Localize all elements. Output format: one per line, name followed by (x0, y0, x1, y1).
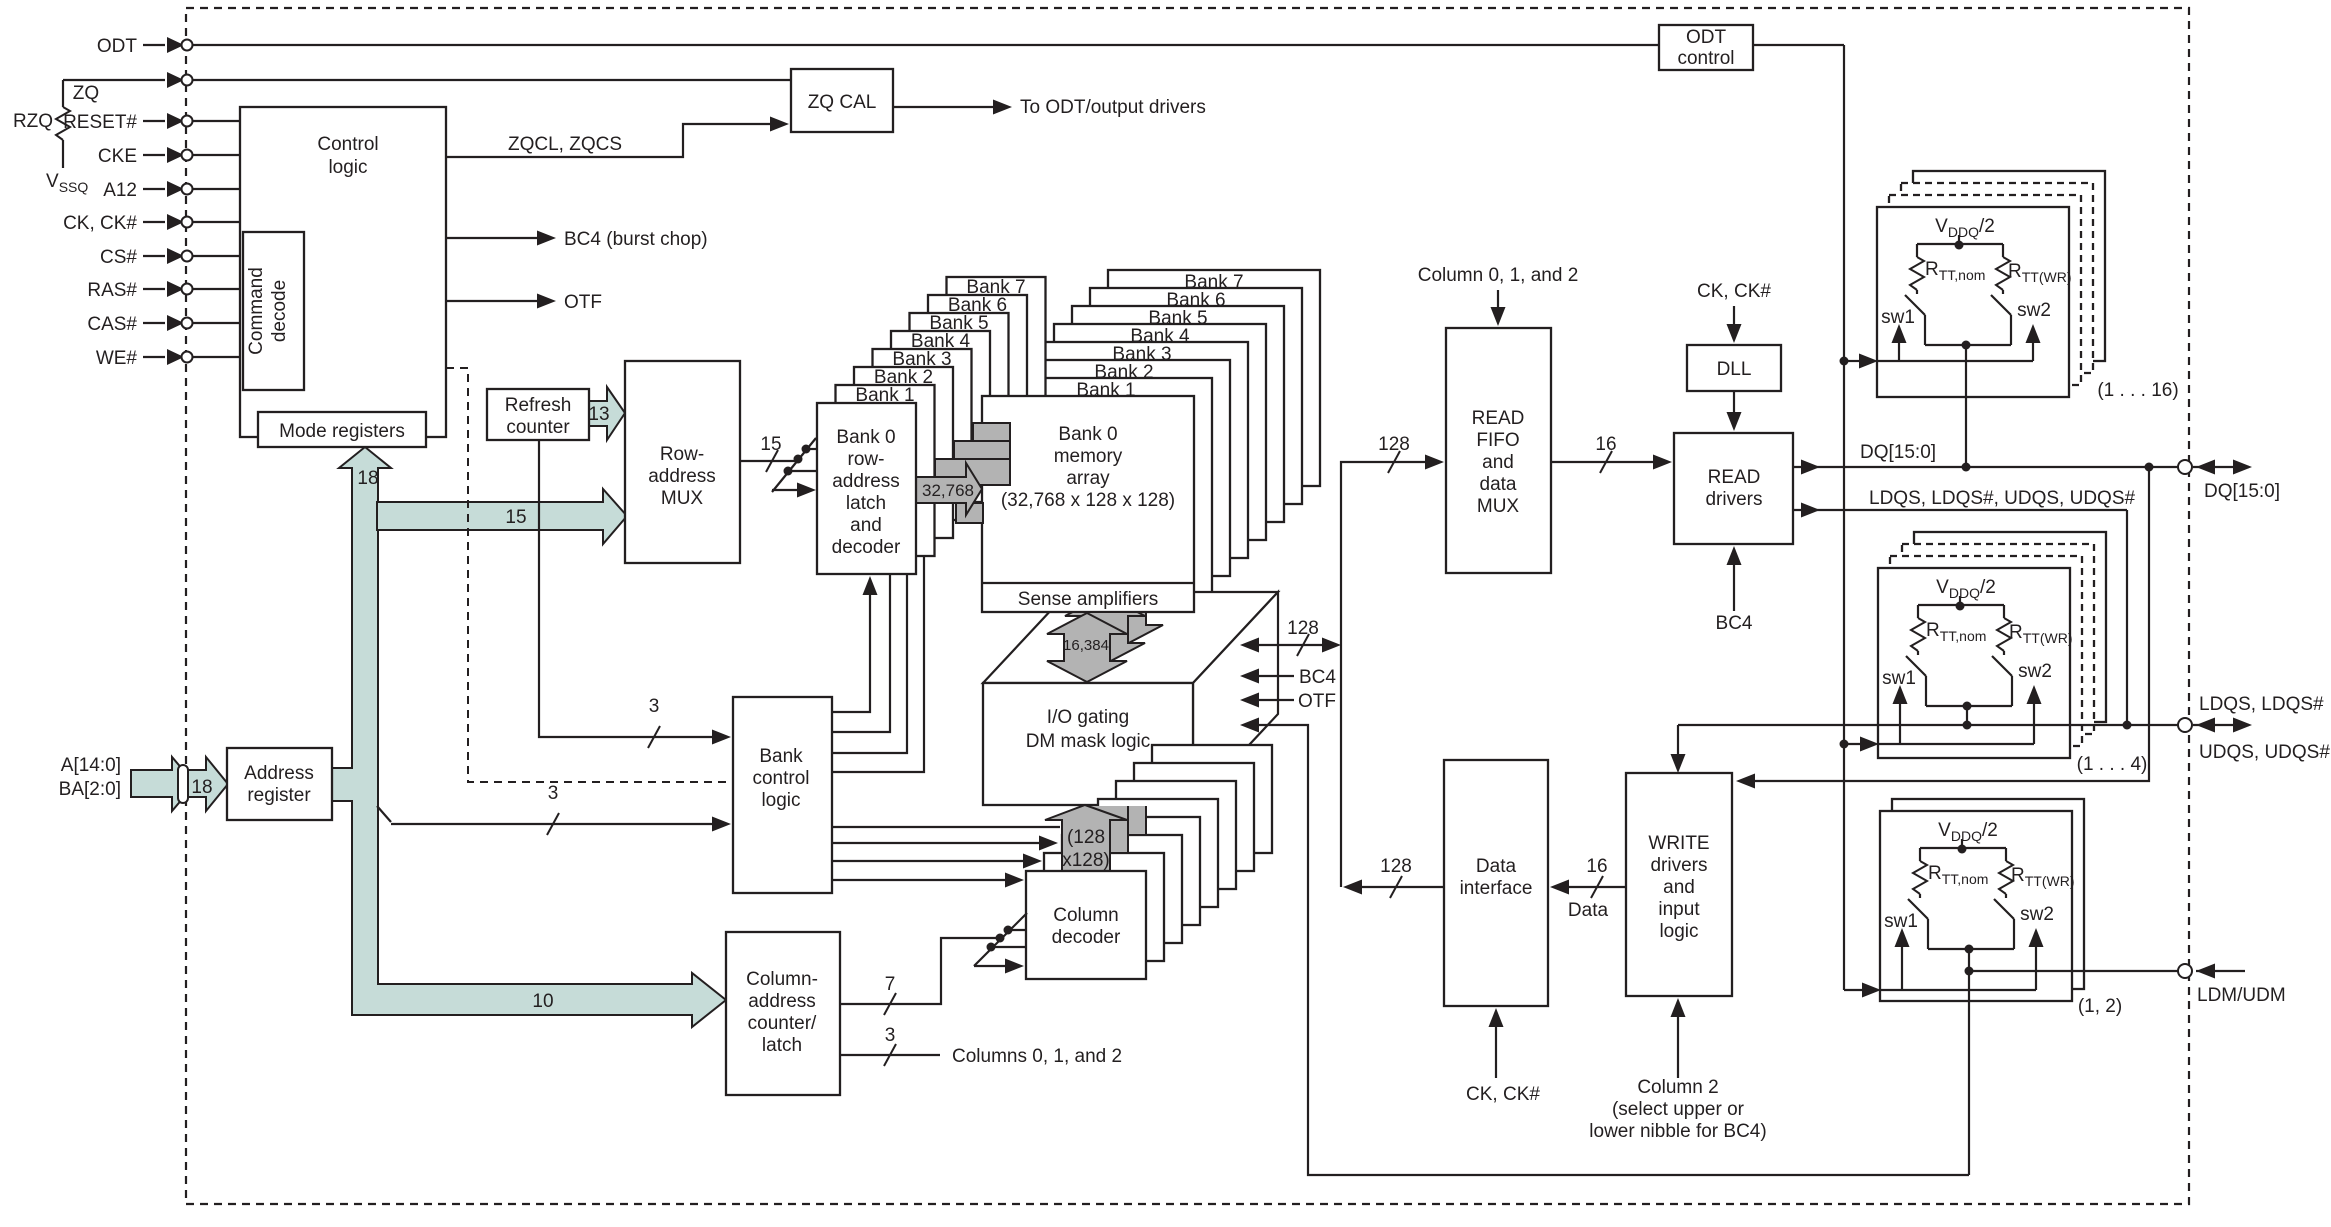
svg-text:LDQS, LDQS#: LDQS, LDQS# (2199, 694, 2324, 715)
svg-text:18: 18 (191, 777, 212, 798)
svg-text:address: address (748, 991, 816, 1012)
row-address MUX box (625, 361, 740, 563)
svg-text:input: input (1658, 899, 1700, 920)
junction on column fanout (987, 943, 996, 952)
wire A12 into control logic (193, 188, 240, 190)
svg-text:(32,768 x 128 x 128): (32,768 x 128 x 128) (1001, 490, 1175, 511)
svg-text:(1 . . . 4): (1 . . . 4) (2077, 754, 2148, 775)
address register box (227, 748, 332, 820)
termination circuit DQS (1...4) stacked boxes (1914, 532, 2106, 722)
column decoder stacked box 7 (1152, 745, 1272, 853)
svg-text:Sense amplifiers: Sense amplifiers (1018, 589, 1158, 610)
VDDQ node (1958, 845, 1967, 854)
DLL box (1687, 345, 1781, 391)
wire RESET# into control logic (193, 120, 240, 122)
svg-text:drivers: drivers (1650, 855, 1707, 876)
VDDQ rail (1920, 847, 2006, 849)
wire DLL to READ drivers (1733, 391, 1735, 425)
svg-text:128: 128 (1380, 856, 1412, 877)
wire CS# into control logic (193, 255, 240, 257)
DQS pad circle (2178, 718, 2192, 732)
bank 5 memory array box (1072, 306, 1284, 522)
stacked 16,384 arrow fragments (1065, 577, 1163, 664)
svg-text:16: 16 (1595, 434, 1616, 455)
teal bus 13 from Refresh counter to Row-address MUX (589, 387, 625, 440)
teal bus 15 to Row-address MUX (377, 489, 627, 544)
bank 5 row-address latch box (910, 313, 1009, 484)
wire 16 READ FIFO to READ drivers (1551, 461, 1666, 463)
wire column counter output 7 (840, 938, 997, 1004)
READ drivers box (1674, 433, 1793, 544)
wire WE# into control logic (193, 356, 240, 358)
svg-text:A[14:0]: A[14:0] (61, 755, 121, 776)
svg-text:(1, 2): (1, 2) (2078, 996, 2122, 1017)
wire BC4 into I/O gating (1256, 675, 1294, 677)
I/O gating DM mask logic 3D box (983, 592, 1278, 683)
svg-text:DM mask logic: DM mask logic (1026, 731, 1151, 752)
svg-text:128: 128 (1378, 434, 1410, 455)
column decoder stacked box 3 (1080, 817, 1200, 925)
svg-text:LDQS, LDQS#, UDQS, UDQS#: LDQS, LDQS#, UDQS, UDQS# (1869, 488, 2136, 509)
LDM external wire (2196, 970, 2245, 972)
ZQ CAL box (791, 69, 893, 132)
wire 128 data interface to write bus (1349, 886, 1444, 888)
svg-text:row-: row- (848, 449, 885, 470)
wire ODT control to termination rail (1753, 44, 1844, 46)
wire bank control to latch stack (832, 556, 924, 772)
svg-text:Column-: Column- (746, 969, 818, 990)
svg-text:data: data (1480, 474, 1517, 495)
bank 6 memory array box (1090, 288, 1302, 504)
wire CK into data interface (1495, 1014, 1497, 1078)
svg-text:A12: A12 (103, 180, 137, 201)
column decoder box (1026, 871, 1146, 979)
svg-text:RAS#: RAS# (87, 280, 137, 301)
bank 0 memory array box (982, 396, 1194, 612)
VDDQ rail (1917, 243, 2003, 245)
resistor RTT(WR) (2002, 244, 2004, 257)
svg-text:decode: decode (269, 280, 290, 342)
bank control logic box (733, 697, 832, 893)
svg-text:Data: Data (1568, 900, 1609, 921)
switch control feed wire (1880, 989, 2036, 991)
sw1 control arrow (1901, 943, 1903, 990)
svg-text:CK, CK#: CK, CK# (1466, 1084, 1540, 1105)
svg-text:CK, CK#: CK, CK# (1697, 281, 1771, 302)
wire bank control to column decoder stack (832, 826, 1060, 828)
svg-text:MUX: MUX (1477, 496, 1520, 517)
junction on row fanout (784, 467, 793, 476)
svg-text:ZQ CAL: ZQ CAL (808, 92, 877, 113)
svg-text:CS#: CS# (100, 247, 137, 268)
bus arrow 32,768 from latch to memory array (916, 463, 982, 515)
termination circuit DM (1,2) stacked boxes (1892, 799, 2084, 989)
wire column fanout branch (1008, 929, 1026, 931)
sw2 control arrow (2035, 943, 2037, 990)
svg-text:Address: Address (244, 763, 314, 784)
junction DQS vertical (2123, 721, 2132, 730)
wire row fanout branch (806, 448, 817, 450)
wire ODT rail to DQ termination (1844, 360, 1860, 362)
write data bus vertical (1340, 645, 1342, 887)
wire ODT rail to DQS termination (1844, 743, 1861, 745)
wire DQ termination to DQ bus (1965, 345, 1967, 467)
wire ZQ to ZQ CAL (193, 79, 791, 81)
svg-text:16,384: 16,384 (1063, 637, 1109, 654)
switch sw2 (1994, 899, 2014, 919)
svg-text:decoder: decoder (1052, 927, 1121, 948)
svg-text:CKE: CKE (98, 146, 137, 167)
resistor RZQ (62, 80, 64, 107)
bank 2 row-address latch box (854, 367, 953, 538)
wire column fanout arrow (974, 965, 1018, 967)
svg-text:memory: memory (1054, 446, 1123, 467)
svg-text:address: address (648, 466, 716, 487)
junction ODT rail to DQ termination (1840, 357, 1849, 366)
junction DQS termination (1963, 721, 1972, 730)
DQ[15:0] bus (1793, 466, 2178, 468)
switch sw2 (1991, 295, 2011, 315)
wire 16 Data write drivers to data interface (1556, 886, 1626, 888)
bank 3 memory array box (1036, 342, 1248, 558)
wire bank control to column decoder stack (832, 860, 1036, 862)
VDDQ node (1955, 241, 1964, 250)
feed arrowhead (1862, 983, 1881, 998)
junction DQ loopback (2145, 463, 2154, 472)
resistor RTT,nom (1917, 605, 1919, 618)
wire column fanout branch (991, 946, 1026, 948)
wire DM mask from LDM/UDM path (1256, 725, 1969, 1175)
svg-text:18: 18 (357, 468, 378, 489)
svg-text:VSSQ: VSSQ (46, 171, 88, 195)
bank 1 memory array box (1000, 378, 1212, 594)
svg-text:logic: logic (1659, 921, 1698, 942)
I/O gating front face (983, 683, 1193, 805)
bus arrow (128 x128) from column decoder to I/O gating (1045, 805, 1127, 871)
svg-text:control: control (752, 768, 809, 789)
svg-text:sw1: sw1 (1882, 668, 1916, 689)
svg-text:Data: Data (1476, 856, 1517, 877)
termination circuit DQ (1...16) front box (1877, 207, 2069, 397)
svg-text:counter: counter (506, 417, 570, 438)
ODT termination control vertical rail (1843, 45, 1845, 990)
column-address counter/latch box (726, 932, 840, 1095)
termination circuit DQ (1...16) stacked boxes (1913, 171, 2105, 361)
svg-text:15: 15 (760, 434, 781, 455)
svg-text:sw1: sw1 (1884, 911, 1918, 932)
svg-text:OTF: OTF (564, 292, 602, 313)
teal input arrow A[14:0] BA[2:0] stage 2 (188, 757, 228, 811)
svg-text:control: control (1677, 48, 1734, 69)
switch sw2 (1992, 656, 2012, 676)
wire columns 0,1,2 output (840, 1054, 940, 1056)
svg-text:32,768: 32,768 (922, 481, 974, 500)
wire DM termination to DM rail (1968, 949, 1970, 1175)
resistor RTT,nom (1916, 244, 1918, 257)
svg-text:WE#: WE# (96, 348, 138, 369)
svg-text:sw1: sw1 (1881, 307, 1915, 328)
wire CKE into control logic (193, 154, 240, 156)
wire row fanout branch (788, 470, 817, 472)
svg-text:ODT: ODT (97, 36, 138, 57)
junction ODT rail to DQS termination (1840, 740, 1849, 749)
svg-text:13: 13 (588, 404, 609, 425)
wire DQS bus into WRITE drivers (1677, 725, 1679, 767)
svg-text:Column: Column (1053, 905, 1118, 926)
DQS arrowhead (1801, 503, 1820, 518)
wire BC4 into READ drivers (1733, 552, 1735, 611)
svg-text:128: 128 (1287, 618, 1319, 639)
wire column select into READ FIFO (1497, 290, 1499, 320)
control logic box U-CTRL (240, 107, 446, 437)
svg-text:Columns 0, 1, and 2: Columns 0, 1, and 2 (952, 1046, 1122, 1067)
sw1 control arrow (1899, 700, 1901, 744)
svg-text:(1 . . . 16): (1 . . . 16) (2097, 380, 2178, 401)
dashed wire from control logic to bank control logic (446, 368, 733, 782)
svg-text:sw2: sw2 (2018, 661, 2052, 682)
svg-text:array: array (1066, 468, 1110, 489)
column decoder stacked box 4 (1098, 799, 1218, 907)
DQS wire from READ drivers (1793, 509, 2127, 511)
svg-text:latch: latch (846, 493, 886, 514)
svg-text:OTF: OTF (1298, 691, 1336, 712)
wire ZQCL,ZQCS from control logic to ZQ CAL (446, 124, 770, 157)
teal input arrow A[14:0] BA[2:0] stage 1 (131, 757, 195, 811)
ODT control box (1659, 25, 1753, 70)
svg-text:DQ[15:0]: DQ[15:0] (2204, 481, 2280, 502)
wire ODT to ODT control (193, 44, 1659, 46)
svg-text:DLL: DLL (1717, 359, 1752, 380)
column decoder stacked box 2 (1062, 835, 1182, 943)
resistor RTT(WR) (2005, 848, 2007, 861)
svg-text:CAS#: CAS# (87, 314, 137, 335)
bank 3 row-address latch box (873, 349, 972, 520)
svg-text:ZQCL, ZQCS: ZQCL, ZQCS (508, 134, 622, 155)
wire DQ loopback into WRITE drivers (1754, 467, 2149, 781)
svg-text:Refresh: Refresh (505, 395, 572, 416)
svg-text:drivers: drivers (1705, 489, 1762, 510)
bank 7 memory array box (1108, 270, 1320, 486)
svg-text:sw2: sw2 (2017, 300, 2051, 321)
wire bank control to column decoder (832, 879, 1018, 881)
sw2 control arrow (2033, 700, 2035, 744)
svg-text:Bank 0: Bank 0 (836, 427, 895, 448)
svg-text:Row-: Row- (660, 444, 704, 465)
switch common bar (1928, 948, 2014, 950)
svg-text:CK, CK#: CK, CK# (63, 213, 137, 234)
resistor RTT,nom (1919, 848, 1921, 861)
wire CAS# into control logic (193, 322, 240, 324)
svg-text:RZQ: RZQ (13, 111, 53, 132)
svg-text:Bank 0: Bank 0 (1058, 424, 1117, 445)
sense amplifiers divider (982, 582, 1194, 584)
svg-text:decoder: decoder (832, 537, 901, 558)
wire refresh counter to bank control logic (539, 440, 727, 737)
switch sw1 (1905, 295, 1925, 315)
bank 6 row-address latch box (928, 295, 1027, 466)
svg-text:logic: logic (761, 790, 800, 811)
svg-text:register: register (247, 785, 311, 806)
svg-text:Column 2: Column 2 (1637, 1077, 1718, 1098)
feed arrowhead (1860, 737, 1879, 752)
wire bank control to column decoder stack (832, 842, 1052, 844)
junction DQ termination (1962, 463, 1971, 472)
switch control feed wire (1878, 743, 2034, 745)
svg-text:10: 10 (532, 991, 553, 1012)
stacked (128 x128) arrow fragments (1063, 769, 1163, 853)
wire tap from address bus (377, 806, 391, 822)
svg-text:Command: Command (246, 267, 267, 355)
DQS wire vertical (2126, 510, 2128, 725)
DQS bus (1678, 724, 2178, 726)
svg-text:address: address (832, 471, 900, 492)
switch common bar (1925, 344, 2011, 346)
svg-text:3: 3 (885, 1025, 896, 1046)
svg-text:Mode registers: Mode registers (279, 421, 405, 442)
column decoder stacked box 1 (1044, 853, 1164, 961)
column decoder stacked box 5 (1116, 781, 1236, 889)
command decode box (243, 232, 304, 390)
wire row-address MUX output 15 (740, 460, 798, 462)
bank 4 row-address latch box (891, 331, 990, 502)
svg-text:7: 7 (885, 974, 896, 995)
DQ arrowhead (1801, 460, 1820, 475)
svg-text:MUX: MUX (661, 488, 704, 509)
column decoder stacked box 6 (1134, 763, 1254, 871)
svg-text:UDQS, UDQS#: UDQS, UDQS# (2199, 742, 2330, 763)
refresh counter box (487, 389, 589, 440)
DQ external wire (2193, 466, 2249, 468)
wire ZQ CAL output (893, 106, 995, 108)
svg-text:3: 3 (548, 783, 559, 804)
WRITE drivers and input logic box (1626, 773, 1732, 996)
wire bank control to bank0 latch (832, 581, 870, 712)
switch bar node (1965, 945, 1974, 954)
svg-text:LDM/UDM: LDM/UDM (2197, 985, 2286, 1006)
svg-text:latch: latch (762, 1035, 802, 1056)
svg-text:FIFO: FIFO (1476, 430, 1519, 451)
svg-text:RESET#: RESET# (63, 112, 137, 133)
svg-text:counter/: counter/ (748, 1013, 817, 1034)
wire bank control to latch stack (832, 574, 907, 753)
column address fanout diagonal (974, 913, 1027, 966)
svg-text:sw2: sw2 (2020, 904, 2054, 925)
svg-text:15: 15 (505, 507, 526, 528)
pin capsule on chip boundary (178, 765, 188, 803)
READ FIFO and data MUX box (1446, 328, 1551, 573)
feed arrowhead (1859, 354, 1878, 369)
bank 7 row-address latch box (947, 277, 1046, 448)
svg-text:BC4: BC4 (1299, 667, 1336, 688)
teal address bus trunk with arrow 18 to Mode registers and band 10 to column-address counter (332, 447, 726, 1027)
svg-text:BC4 (burst chop): BC4 (burst chop) (564, 229, 708, 250)
sw1 control arrow (1898, 339, 1900, 361)
svg-text:DQ[15:0]: DQ[15:0] (1860, 442, 1936, 463)
junction on column fanout (1004, 926, 1013, 935)
bank 0 row-address latch and decoder box (817, 403, 916, 574)
svg-text:and: and (1663, 877, 1695, 898)
svg-text:Column 0, 1, and 2: Column 0, 1, and 2 (1418, 265, 1579, 286)
wire CK, CK# into control logic (193, 221, 240, 223)
resistor RTT(WR) (2003, 605, 2005, 618)
LDM/UDM wire (1969, 970, 2178, 972)
read data bus to READ FIFO (1341, 462, 1438, 645)
svg-text:(128: (128 (1067, 827, 1105, 848)
wire CK into DLL (1733, 306, 1735, 337)
svg-text:BA[2:0]: BA[2:0] (59, 779, 121, 800)
switch bar node (1963, 702, 1972, 711)
wire rail corner into DM termination (1844, 989, 1862, 991)
svg-text:WRITE: WRITE (1648, 833, 1709, 854)
wire Column 2 into WRITE drivers (1677, 1004, 1679, 1078)
termination circuit DQS (1...4) front box (1878, 568, 2070, 758)
wire row fanout arrow into bank0 latch (772, 489, 810, 491)
bank 2 memory array box (1018, 360, 1230, 576)
svg-text:READ: READ (1472, 408, 1525, 429)
wire bank control to latch stack (832, 574, 890, 732)
DQS external wire (2193, 724, 2249, 726)
svg-text:logic: logic (328, 157, 367, 178)
bus 128 between I/O gating and RW bus (1256, 644, 1325, 646)
svg-text:and: and (1482, 452, 1514, 473)
junction DM termination to LDM line (1965, 967, 1974, 976)
svg-text:x128): x128) (1062, 850, 1110, 871)
switch sw1 (1908, 899, 1928, 919)
switch common bar (1926, 705, 2012, 707)
bank 4 memory array box (1054, 324, 1266, 540)
svg-text:and: and (850, 515, 882, 536)
DQ pad circle (2178, 460, 2192, 474)
wire OTF output (446, 300, 537, 302)
switch control feed wire (1877, 360, 2033, 362)
svg-text:3: 3 (649, 696, 660, 717)
svg-text:(select upper or: (select upper or (1612, 1099, 1745, 1120)
junction on row fanout (794, 455, 803, 464)
VDDQ node (1956, 602, 1965, 611)
switch bar node (1962, 341, 1971, 350)
wire BC4 output (446, 237, 537, 239)
sw2 control arrow (2032, 339, 2034, 361)
switch sw1 (1906, 656, 1926, 676)
mode registers box (258, 412, 426, 447)
wire DQS termination to DQS bus (1966, 706, 1968, 725)
svg-text:I/O gating: I/O gating (1047, 707, 1129, 728)
row address fanout diagonal (772, 438, 816, 492)
svg-text:lower nibble for BC4): lower nibble for BC4) (1589, 1121, 1766, 1142)
svg-text:ZQ: ZQ (73, 83, 99, 104)
VDDQ rail (1918, 604, 2004, 606)
bus arrow 16,384 between sense amplifiers and I/O gating (1047, 613, 1127, 682)
LDM pad circle (2178, 964, 2192, 978)
data interface box (1444, 760, 1548, 1006)
termination circuit DM (1,2) front box (1880, 811, 2072, 1001)
svg-text:READ: READ (1708, 467, 1761, 488)
svg-text:16: 16 (1586, 856, 1607, 877)
svg-text:ODT: ODT (1686, 27, 1727, 48)
svg-text:Bank: Bank (759, 746, 803, 767)
bank 1 row-address latch box (836, 385, 935, 556)
svg-text:interface: interface (1460, 878, 1533, 899)
svg-text:Control: Control (317, 134, 378, 155)
junction on column fanout (996, 934, 1005, 943)
wire OTF into I/O gating (1256, 699, 1294, 701)
svg-text:To ODT/output drivers: To ODT/output drivers (1020, 97, 1206, 118)
wire RAS# into control logic (193, 288, 240, 290)
svg-text:BC4: BC4 (1716, 613, 1753, 634)
junction on row fanout (802, 445, 811, 454)
stacked 32,768 arrow fragments (973, 423, 1010, 449)
